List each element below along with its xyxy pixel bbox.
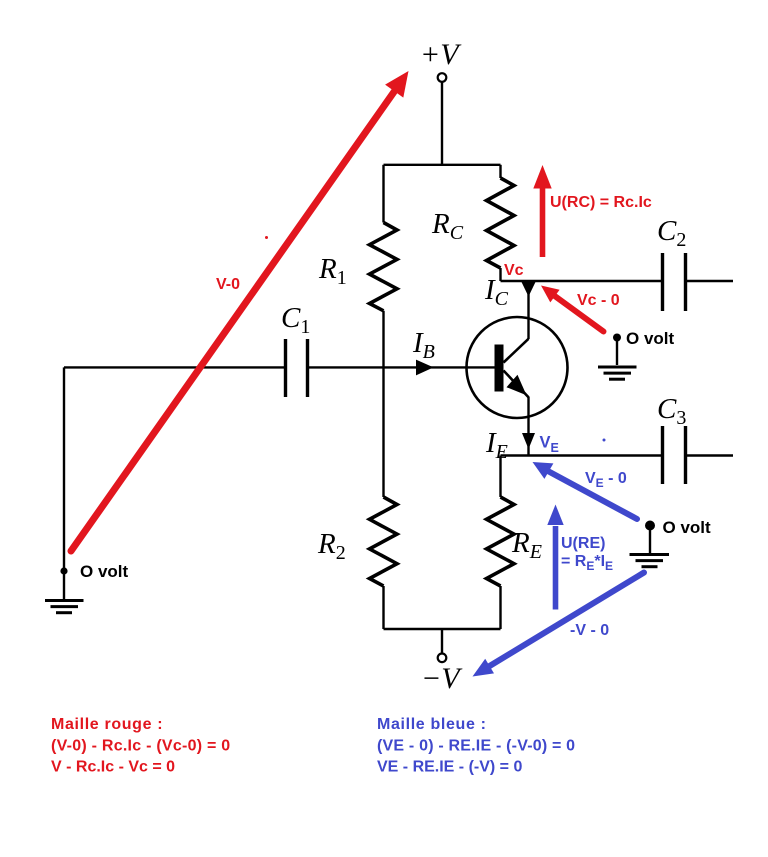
ground (emitter reference): [630, 555, 670, 567]
transistor Q1 collector diagonal: [504, 339, 529, 363]
transistor Q1 emitter diagonal: [504, 371, 529, 398]
wire: input ground lead: [63, 571, 65, 599]
svg-text:RC: RC: [431, 208, 464, 244]
svg-text:O volt: O volt: [80, 562, 129, 581]
svg-text:C2: C2: [657, 215, 686, 251]
svg-text:Maille rouge :: Maille rouge :: [51, 716, 163, 733]
wire: RC bottom lead: [499, 268, 501, 281]
resistor RE: [487, 497, 515, 586]
wire: collector vertical to transistor: [527, 281, 529, 339]
current arrow IC (triangle): [522, 282, 536, 297]
svg-text:R1: R1: [318, 253, 347, 289]
svg-text:C3: C3: [657, 393, 686, 429]
wire: RE top lead: [499, 456, 501, 498]
wire: C2 right stub: [686, 280, 734, 282]
svg-text:(VE - 0) - RE.IE - (-V-0) = 0: (VE - 0) - RE.IE - (-V-0) = 0: [377, 738, 575, 755]
wire: collector rail left of C2: [501, 280, 663, 282]
svg-text:Maille bleue :: Maille bleue :: [377, 716, 487, 733]
current arrow IB (triangle): [416, 360, 434, 376]
wire: emitter vertical down: [527, 397, 529, 456]
svg-text:O volt: O volt: [663, 518, 712, 537]
capacitor C1: [286, 339, 308, 397]
wire: top rail: [384, 164, 501, 166]
node O volt (emitter reference) dot: [645, 521, 655, 531]
KVL arrow U(RC) (red vertical): [533, 165, 551, 257]
node O volt (collector reference) dot: [613, 334, 621, 342]
terminal -V (open circle): [438, 654, 447, 663]
svg-text:(V-0) - Rc.Ic - (Vc-0) = 0: (V-0) - Rc.Ic - (Vc-0) = 0: [51, 738, 230, 755]
stray red speck: [265, 236, 268, 239]
svg-text:C1: C1: [281, 302, 310, 338]
svg-text:IB: IB: [412, 327, 435, 363]
svg-text:-V - 0: -V - 0: [570, 622, 609, 639]
svg-text:U(RE): U(RE): [561, 535, 605, 552]
wire: bottom rail: [384, 628, 501, 630]
transistor Q1 circle: [467, 317, 568, 418]
transistor Q1 emitter arrowhead: [507, 375, 527, 396]
transistor Q1 base bar: [495, 345, 504, 392]
wire: +V terminal drop to top rail: [441, 82, 443, 165]
resistor RC: [487, 178, 515, 268]
svg-text:RE: RE: [511, 527, 542, 563]
wire: emitter reference ground lead: [649, 526, 651, 554]
ground (collector reference): [598, 367, 637, 379]
svg-text:R2: R2: [317, 528, 346, 564]
svg-text:IC: IC: [484, 274, 509, 310]
wire: base wire left of C1: [64, 366, 286, 368]
wire: collector reference ground lead: [616, 338, 618, 366]
svg-text:VE: VE: [540, 434, 559, 456]
wire: RC top lead: [499, 165, 501, 178]
KVL arrow -V-0 (blue): [473, 573, 645, 677]
wire: base wire right of C1: [308, 366, 496, 368]
svg-text:O volt: O volt: [626, 329, 675, 348]
KVL arrow VE-0 (blue): [533, 462, 638, 519]
svg-text:V - Rc.Ic - Vc = 0: V - Rc.Ic - Vc = 0: [51, 759, 175, 776]
KVL arrow U(RE) (blue vertical): [547, 505, 563, 610]
svg-text:= RE*IE: = RE*IE: [561, 553, 613, 573]
svg-text:−V: −V: [421, 662, 463, 695]
ground (input): [45, 601, 84, 613]
stray blue speck: [603, 439, 606, 442]
svg-text:+V: +V: [420, 38, 462, 71]
node O volt (input ground) dot: [60, 567, 67, 574]
wire: RE bottom lead: [499, 586, 501, 629]
wire: input left vertical: [63, 367, 65, 571]
svg-text:VE - 0: VE - 0: [585, 470, 627, 490]
svg-text:V-0: V-0: [216, 276, 240, 293]
wire: emitter rail left of C3: [501, 454, 663, 456]
wire: mid vertical R1-R2 (node B): [382, 311, 384, 497]
svg-text:Vc - 0: Vc - 0: [577, 292, 620, 309]
capacitor C3: [663, 426, 686, 484]
capacitor C2: [663, 253, 686, 311]
KVL arrow V-0 (red diagonal): [71, 71, 409, 551]
resistor R1: [370, 223, 398, 311]
svg-text:VE - RE.IE - (-V) = 0: VE - RE.IE - (-V) = 0: [377, 759, 522, 776]
svg-text:IE: IE: [485, 427, 508, 463]
resistor R2: [370, 497, 398, 586]
current arrow IE (triangle): [522, 433, 535, 449]
svg-text:U(RC) = Rc.Ic: U(RC) = Rc.Ic: [550, 194, 652, 211]
wire: R1 top lead: [382, 165, 384, 223]
KVL arrow Vc-0 (red): [541, 286, 604, 332]
svg-text:Vc: Vc: [504, 262, 524, 279]
wire: -V terminal drop: [441, 629, 443, 654]
wire: C3 right stub: [686, 454, 734, 456]
terminal +V (open circle): [438, 73, 447, 82]
wire: R2 bottom lead: [382, 586, 384, 629]
